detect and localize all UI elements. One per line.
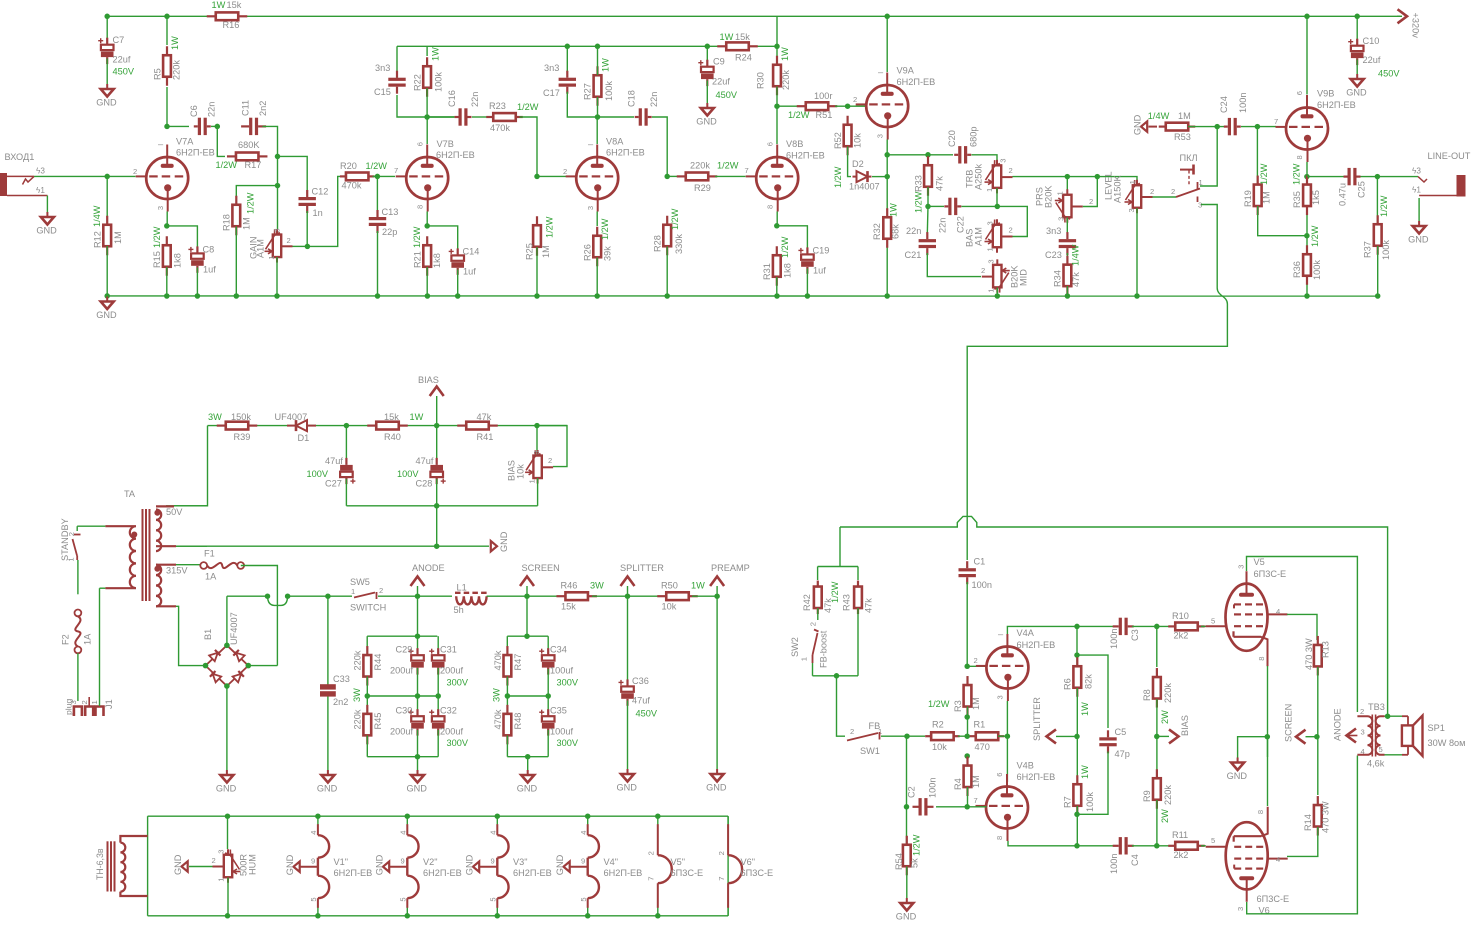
svg-text:10k: 10k	[853, 133, 863, 148]
node C25 right	[1361, 176, 1419, 178]
svg-text:1/2W: 1/2W	[788, 110, 810, 120]
wire R6 top from C3 row	[1076, 626, 1078, 666]
svg-text:PREAMP: PREAMP	[711, 563, 750, 573]
svg-text:47uf: 47uf	[325, 456, 343, 466]
svg-text:F1: F1	[204, 549, 215, 559]
svg-text:1/2W: 1/2W	[914, 191, 924, 213]
node V8A grid	[534, 174, 540, 180]
node bias lower rail	[434, 503, 440, 509]
svg-text:8: 8	[415, 205, 424, 209]
svg-text:C32: C32	[440, 706, 457, 716]
svg-text:22p: 22p	[382, 227, 397, 237]
node C2 left	[904, 804, 910, 810]
svg-text:1M: 1M	[1262, 191, 1272, 204]
svg-text:V7A: V7A	[176, 137, 194, 147]
svg-text:1/4W: 1/4W	[1071, 244, 1081, 266]
resistor R45 220k	[366, 705, 368, 714]
svg-text:UF4007: UF4007	[275, 412, 308, 422]
svg-text:C27: C27	[325, 479, 342, 489]
svg-text:GND: GND	[517, 784, 538, 794]
wire jog crossing ground rail	[1217, 288, 1227, 304]
svg-text:R17: R17	[245, 160, 262, 170]
node C2 right	[964, 804, 970, 810]
svg-text:6П3С-Е: 6П3С-Е	[1257, 894, 1290, 904]
node grid V7A	[104, 174, 110, 180]
svg-text:R14: R14	[1303, 814, 1313, 831]
svg-text:R12: R12	[93, 231, 103, 248]
wire C2 node to V4B grid	[936, 806, 967, 808]
wire preamp node to ground	[716, 596, 718, 769]
svg-text:GND: GND	[706, 783, 727, 793]
svg-text:8: 8	[765, 205, 774, 209]
svg-text:R36: R36	[1292, 261, 1302, 278]
wire C11 to R17 node	[262, 126, 277, 156]
svg-text:R29: R29	[694, 183, 711, 193]
node screen rail	[524, 593, 530, 599]
svg-text:HUM: HUM	[248, 854, 258, 875]
svg-text:9: 9	[311, 857, 315, 866]
svg-text:B20K: B20K	[1044, 185, 1054, 208]
svg-text:1/2W: 1/2W	[1292, 163, 1302, 185]
wire primary bottom to plug pin1	[99, 588, 101, 706]
svg-text:1/2W: 1/2W	[833, 166, 843, 188]
svg-text:2: 2	[80, 700, 89, 704]
wire second B+ rail y46	[397, 45, 722, 47]
wire bias lower rail	[346, 505, 537, 507]
wire R27 bottom to row117	[597, 97, 599, 117]
svg-text:8: 8	[1257, 656, 1266, 660]
node splitter	[592, 595, 667, 597]
node R24 right	[774, 44, 780, 50]
svg-text:R44: R44	[373, 654, 383, 671]
svg-text:R20: R20	[340, 161, 357, 171]
svg-text:47uf: 47uf	[632, 696, 650, 706]
svg-text:C5: C5	[1115, 727, 1127, 737]
triode V9A	[866, 85, 908, 127]
resistor R5	[166, 16, 168, 45]
svg-text:ВХОД1: ВХОД1	[5, 152, 35, 162]
wire R42 R43 top connector	[818, 566, 858, 568]
triode V9B	[1286, 108, 1328, 150]
svg-text:4: 4	[309, 830, 318, 834]
node R20 right / C13	[373, 175, 396, 177]
svg-text:C19: C19	[813, 246, 830, 256]
capacitor C34 100uf	[547, 636, 549, 655]
wire V9A cathode down	[886, 140, 888, 296]
svg-text:R7: R7	[1063, 796, 1073, 808]
resistor R31 1k8	[776, 212, 778, 226]
wire transformer gnd rail	[166, 545, 489, 547]
svg-text:V2": V2"	[423, 857, 438, 867]
resistor R18	[235, 196, 237, 205]
svg-text:GND: GND	[96, 310, 117, 320]
wire F1 to bridge via hop	[241, 566, 278, 591]
svg-text:1/2W: 1/2W	[245, 192, 255, 214]
svg-text:1W: 1W	[431, 47, 441, 61]
svg-text:C6: C6	[189, 105, 199, 117]
wire anode filter mid row	[366, 677, 368, 717]
svg-text:100n: 100n	[1109, 629, 1119, 649]
svg-text:SWITCH: SWITCH	[350, 603, 386, 613]
svg-text:R31: R31	[762, 263, 772, 280]
svg-text:47k: 47k	[864, 598, 874, 613]
triode V8A	[576, 157, 618, 199]
diode D1 UF4007	[287, 425, 296, 427]
pentode V6 (mirrored)	[1226, 822, 1268, 889]
svg-text:2: 2	[563, 167, 567, 176]
svg-text:ПКЛ: ПКЛ	[1180, 153, 1198, 163]
wire FB block top	[839, 527, 841, 567]
svg-text:47k: 47k	[1071, 272, 1081, 287]
resistor R1 470	[970, 735, 976, 737]
diode D2 1n4007	[853, 176, 857, 178]
svg-text:GND: GND	[96, 98, 117, 108]
svg-text:2n2: 2n2	[258, 101, 268, 116]
node R17 right	[275, 154, 281, 160]
wire screen filter mid row	[507, 695, 548, 697]
resistor R39 150k	[217, 425, 226, 427]
svg-text:1/4W: 1/4W	[92, 205, 102, 227]
svg-text:–: –	[878, 67, 884, 77]
svg-text:1: 1	[217, 877, 226, 881]
ground rail junction dots	[164, 293, 170, 299]
svg-text:47k: 47k	[935, 176, 945, 191]
svg-text:200uf: 200uf	[390, 727, 413, 737]
svg-text:3W: 3W	[352, 688, 362, 702]
resistor R26 39k	[596, 212, 598, 227]
svg-text:200uf: 200uf	[440, 666, 463, 676]
svg-text:–: –	[998, 629, 1004, 639]
resistor R3 1M	[966, 676, 968, 685]
svg-text:7: 7	[1274, 117, 1278, 126]
svg-text:5: 5	[579, 897, 588, 901]
wire hop detour under F1 wire	[265, 593, 271, 599]
wire 50V bottom to gnd rail	[176, 545, 207, 547]
ground below R54	[906, 867, 908, 899]
wire C1 to V4A grid node	[966, 582, 968, 666]
svg-text:100V: 100V	[397, 469, 419, 479]
svg-text:470k: 470k	[493, 709, 503, 729]
node R54 top	[904, 733, 910, 739]
svg-text:1M: 1M	[971, 697, 981, 710]
svg-text:50V: 50V	[166, 507, 183, 517]
triode V8B	[756, 157, 798, 199]
svg-text:R26: R26	[583, 244, 593, 261]
svg-text:1/2W: 1/2W	[412, 226, 422, 248]
resistor R20 470k	[340, 175, 346, 177]
svg-text:1/2W: 1/2W	[912, 834, 922, 856]
speaker SP1	[1402, 715, 1408, 717]
svg-text:V1": V1"	[334, 857, 349, 867]
svg-text:V4": V4"	[604, 857, 619, 867]
svg-text:8: 8	[995, 836, 1004, 840]
svg-text:3: 3	[987, 259, 996, 263]
wire bias rail right corner to pot wiper	[537, 426, 567, 467]
svg-text:450V: 450V	[716, 90, 738, 100]
svg-text:2: 2	[287, 236, 291, 245]
wire V9B anode to rail	[1306, 16, 1308, 94]
svg-text:3W: 3W	[590, 581, 604, 591]
svg-text:330k: 330k	[674, 234, 684, 254]
capacitor C17	[566, 46, 568, 73]
svg-text:V9B: V9B	[1317, 89, 1334, 99]
wire 315V bottom to bridge left	[176, 606, 206, 665]
svg-text:470 3W: 470 3W	[1321, 801, 1331, 833]
ground rail GND symbol	[104, 293, 110, 299]
svg-text:6Н2П-ЕВ: 6Н2П-ЕВ	[423, 868, 462, 878]
ground V5 V6 cathodes	[1238, 737, 1268, 758]
node R18 top	[275, 183, 281, 189]
svg-text:ϟ3: ϟ3	[36, 167, 45, 176]
svg-text:GND: GND	[216, 784, 237, 794]
node R35 bottom	[1304, 233, 1310, 239]
wire TB3 center tap anode arrow	[1346, 735, 1357, 737]
ground below C10	[1356, 60, 1358, 75]
svg-text:–: –	[588, 139, 594, 149]
svg-text:GND: GND	[1408, 235, 1429, 245]
svg-text:C23: C23	[1045, 250, 1062, 260]
node row117 R22	[424, 114, 430, 120]
svg-text:1: 1	[351, 587, 355, 596]
resistor R54 5k	[906, 807, 908, 845]
node C24 left	[1214, 124, 1220, 130]
resistor R10 2k2	[1168, 625, 1175, 627]
svg-text:R47: R47	[513, 654, 523, 671]
resistor R41 47k	[457, 425, 466, 427]
svg-text:2: 2	[1150, 187, 1154, 196]
node screen supply	[1314, 734, 1320, 740]
svg-text:1W: 1W	[410, 412, 424, 422]
svg-text:100r: 100r	[814, 91, 832, 101]
svg-text:R40: R40	[384, 432, 401, 442]
wire F2 to plug pin3	[77, 653, 79, 701]
resistor R50 10k	[657, 595, 666, 597]
svg-text:C28: C28	[416, 479, 433, 489]
wire heater top rail	[148, 815, 729, 817]
svg-text:100n: 100n	[972, 580, 992, 590]
svg-text:1A: 1A	[205, 572, 217, 582]
resistor R6 82k	[1076, 657, 1078, 666]
svg-text:R28: R28	[653, 235, 663, 252]
svg-text:200uf: 200uf	[440, 727, 463, 737]
svg-text:1/4W: 1/4W	[1148, 111, 1170, 121]
svg-text:V9A: V9A	[897, 66, 915, 76]
node C24 right	[1241, 126, 1276, 128]
svg-text:220k: 220k	[353, 650, 363, 670]
svg-text:1: 1	[267, 255, 276, 259]
svg-text:R27: R27	[583, 83, 593, 100]
capacitor C4 100n	[1113, 845, 1119, 847]
node R3 bottom	[967, 707, 969, 737]
svg-text:2n2: 2n2	[333, 697, 348, 707]
ground screen bank	[527, 757, 529, 770]
wire R17 node down to R18 node	[277, 156, 279, 185]
svg-text:R9: R9	[1142, 790, 1152, 802]
svg-text:1M: 1M	[113, 231, 123, 244]
svg-text:100n: 100n	[1238, 93, 1248, 113]
svg-text:1/2W: 1/2W	[517, 102, 539, 112]
svg-text:A1M: A1M	[256, 239, 266, 258]
capacitor C1 100n	[966, 561, 968, 568]
node C3 row left	[1074, 624, 1080, 630]
wire V5 cathode to ground	[1267, 666, 1269, 757]
resistor R11 2k2	[1168, 845, 1175, 847]
svg-text:1/2W: 1/2W	[780, 236, 790, 258]
svg-text:3n3: 3n3	[1046, 226, 1061, 236]
wire TRB bottom to C22 node	[996, 188, 998, 206]
capacitor C6	[167, 125, 189, 127]
wire LEVEL bottom to rail	[1136, 208, 1138, 296]
svg-text:R15: R15	[152, 251, 162, 268]
svg-text:3: 3	[217, 849, 226, 853]
wire +320v top rail	[107, 15, 211, 17]
svg-text:1W: 1W	[1080, 702, 1090, 716]
svg-text:6Н2П-ЕВ: 6Н2П-ЕВ	[436, 150, 475, 160]
svg-text:3: 3	[996, 695, 1005, 699]
svg-text:BIAS: BIAS	[1180, 715, 1190, 736]
resistor R37 100k	[1376, 177, 1378, 224]
capacitor C3 100n	[1113, 625, 1119, 627]
svg-text:R35: R35	[1292, 191, 1302, 208]
svg-text:1M: 1M	[242, 217, 252, 230]
capacitor C7	[106, 16, 108, 43]
svg-text:7: 7	[394, 166, 398, 175]
svg-text:R24: R24	[735, 53, 752, 63]
svg-text:6П3С-Е: 6П3С-Е	[741, 868, 774, 878]
svg-text:200uf: 200uf	[390, 666, 413, 676]
svg-text:C29: C29	[396, 645, 413, 655]
svg-text:R16: R16	[223, 20, 240, 30]
wire TB3 secondary bottom to speaker	[1385, 754, 1403, 756]
supply arrow SPLITTER left	[1047, 729, 1057, 743]
svg-text:GND: GND	[375, 854, 385, 875]
resistor R36 100k	[1306, 245, 1308, 254]
node C22 right	[995, 204, 1001, 210]
heater V3	[495, 813, 501, 819]
svg-text:150k: 150k	[231, 412, 251, 422]
resistor R21 1k8	[426, 212, 428, 226]
svg-text:C17: C17	[543, 88, 560, 98]
wire bridge right up	[248, 665, 277, 667]
svg-text:5: 5	[1211, 617, 1215, 626]
wire bias rail	[208, 425, 568, 427]
svg-text:R3: R3	[953, 700, 963, 712]
resistor R30 220k	[776, 46, 778, 57]
svg-text:6: 6	[765, 142, 774, 146]
capacitor C33 2n2	[327, 596, 329, 684]
svg-text:ϟ3: ϟ3	[1412, 167, 1421, 176]
svg-text:22n: 22n	[938, 218, 948, 233]
svg-text:100k: 100k	[433, 72, 443, 92]
svg-text:2: 2	[67, 532, 76, 536]
wire pot wiper to C12 node	[293, 245, 308, 247]
svg-text:TB3: TB3	[1368, 702, 1385, 712]
wire preamp ground rail	[107, 295, 1378, 297]
wire heater right edge V6	[727, 816, 729, 916]
svg-text:C30: C30	[396, 706, 413, 716]
svg-text:1M: 1M	[541, 245, 551, 258]
resistor R13 470 3W	[1317, 636, 1319, 645]
potentiometer BAS A1M	[996, 219, 998, 225]
svg-text:R52: R52	[833, 132, 843, 149]
wire anode filter bottom row	[367, 756, 438, 758]
supply arrow +320v	[1398, 9, 1408, 23]
svg-text:R54: R54	[894, 853, 904, 870]
svg-text:8: 8	[1256, 810, 1265, 814]
svg-text:C18: C18	[627, 90, 637, 107]
node PRS top	[1065, 174, 1071, 180]
svg-text:15k: 15k	[561, 602, 576, 612]
svg-text:5: 5	[1379, 745, 1383, 754]
svg-text:SP1: SP1	[1428, 723, 1445, 733]
wire LEVEL wiper to switch	[1153, 196, 1177, 198]
svg-text:1k8: 1k8	[432, 253, 442, 268]
svg-text:100k: 100k	[1085, 792, 1095, 812]
wire TRB wiper right	[1013, 176, 1136, 178]
svg-text:1: 1	[1056, 191, 1065, 195]
svg-text:C7: C7	[113, 35, 125, 45]
svg-text:2W: 2W	[1160, 710, 1170, 724]
svg-text:470k: 470k	[342, 181, 362, 191]
svg-text:4,6k: 4,6k	[1367, 759, 1385, 769]
svg-text:3: 3	[1361, 728, 1365, 737]
svg-text:2: 2	[981, 266, 985, 275]
svg-text:3n3: 3n3	[375, 63, 390, 73]
capacitor C12	[306, 190, 308, 197]
svg-text:1/2W: 1/2W	[928, 699, 950, 709]
capacitor C20 680p	[954, 154, 958, 156]
potentiometer TRB A250k	[996, 160, 998, 166]
svg-text:1uf: 1uf	[813, 266, 826, 276]
wire R33 bottom to C22 node	[927, 187, 929, 206]
node splitter tap	[1074, 734, 1080, 740]
svg-text:V5: V5	[1254, 557, 1265, 567]
svg-text:3: 3	[69, 700, 78, 704]
svg-text:100uf: 100uf	[550, 727, 573, 737]
svg-text:R10: R10	[1172, 611, 1189, 621]
svg-text:1: 1	[66, 557, 75, 561]
wire C6C11 node down to R17	[217, 126, 225, 156]
svg-text:C35: C35	[550, 706, 567, 716]
svg-text:C3: C3	[1130, 629, 1140, 641]
svg-text:3: 3	[1127, 208, 1136, 212]
svg-text:R37: R37	[1363, 241, 1373, 258]
svg-text:220k: 220k	[172, 60, 182, 80]
capacitor C30 200uf	[417, 696, 419, 710]
svg-text:2: 2	[379, 586, 383, 595]
svg-text:GND: GND	[1227, 771, 1248, 781]
svg-text:V3": V3"	[513, 857, 528, 867]
wire V7A cathode	[166, 212, 168, 226]
resistor R19 1M	[1256, 127, 1258, 185]
resistor R16	[207, 15, 216, 17]
svg-text:3: 3	[273, 228, 282, 232]
svg-text:C12: C12	[312, 187, 329, 197]
svg-text:6Н2П-ЕВ: 6Н2П-ЕВ	[1017, 772, 1056, 782]
svg-text:6: 6	[995, 772, 1004, 776]
svg-text:10k: 10k	[662, 602, 677, 612]
wire R11 to V6 grid	[1201, 845, 1206, 847]
svg-text:3W: 3W	[492, 688, 502, 702]
svg-text:300V: 300V	[557, 738, 579, 748]
svg-text:R43: R43	[842, 594, 852, 611]
svg-text:F2: F2	[61, 634, 71, 645]
node V7A cathode	[164, 223, 170, 229]
capacitor C31 200uf	[437, 636, 439, 655]
svg-text:SCREEN: SCREEN	[522, 563, 560, 573]
svg-text:450V: 450V	[113, 67, 135, 77]
svg-text:GND: GND	[617, 783, 638, 793]
